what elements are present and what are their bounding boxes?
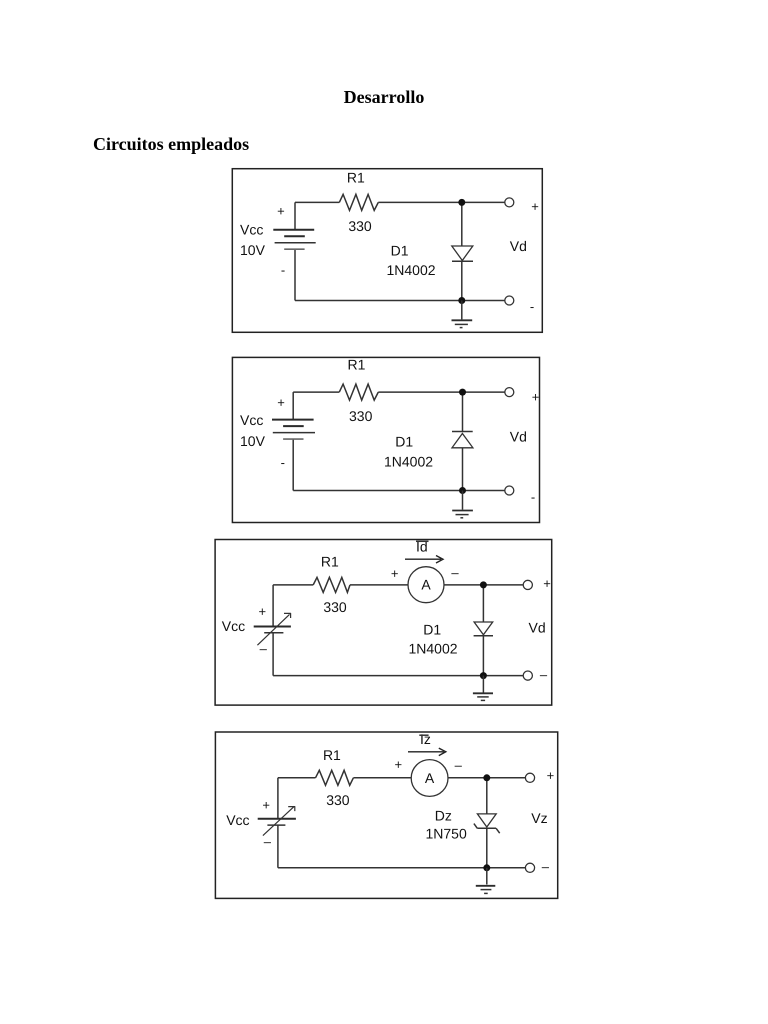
node junction bottom C3 <box>480 672 487 679</box>
svg-text:+: + <box>262 797 270 812</box>
wire bottom C2 <box>293 490 504 492</box>
title Desarrollo <box>0 88 768 106</box>
svg-text:+: + <box>277 203 285 218</box>
wire top C4 <box>278 777 526 779</box>
resistor R1 (circuit 4) <box>316 770 354 785</box>
svg-text:Vcc: Vcc <box>240 221 263 237</box>
ammeter U1 (circuit 4) <box>411 760 448 797</box>
ammeter U1 (circuit 3) <box>408 567 444 603</box>
svg-text:-: - <box>281 263 285 278</box>
svg-text:–: – <box>451 565 459 580</box>
current arrow C3 <box>405 556 443 564</box>
svg-text:R1: R1 <box>321 553 339 569</box>
resistor R1 (circuit 2) <box>339 384 378 400</box>
circuit 1 frame <box>232 169 542 333</box>
svg-text:+: + <box>532 390 540 405</box>
svg-text:+: + <box>531 199 539 214</box>
svg-text:+: + <box>543 576 551 591</box>
svg-text:-: - <box>281 455 285 470</box>
svg-text:Vd: Vd <box>529 619 546 635</box>
terminal + C3 <box>523 580 532 589</box>
battery Vcc 10V (circuit 1) <box>273 202 315 300</box>
svg-text:A: A <box>425 770 435 786</box>
svg-text:Iz: Iz <box>420 731 431 747</box>
svg-text:–: – <box>260 641 268 656</box>
node junction top C1 <box>458 199 465 206</box>
svg-text:-: - <box>531 489 535 504</box>
terminal - C2 <box>505 486 514 495</box>
svg-text:R1: R1 <box>347 169 365 185</box>
wire diode branch C3 <box>482 585 484 676</box>
node junction top C2 <box>459 389 466 396</box>
diode D1 (circuit 1) <box>452 246 473 261</box>
svg-text:-: - <box>530 299 534 314</box>
wire top C2 <box>293 391 504 393</box>
terminal - C4 <box>525 863 534 872</box>
svg-text:D1: D1 <box>423 621 441 637</box>
current label Iz with overline (circuit 4) <box>419 731 431 747</box>
diode D1 reversed (circuit 2) <box>452 432 473 448</box>
terminal - C1 <box>505 296 514 305</box>
terminal + C4 <box>525 773 534 782</box>
svg-text:1N750: 1N750 <box>426 826 467 842</box>
wire top C3 <box>273 584 523 586</box>
svg-text:R1: R1 <box>348 357 366 373</box>
svg-text:330: 330 <box>323 599 347 615</box>
resistor R1 (circuit 3) <box>313 577 350 592</box>
svg-text:Vd: Vd <box>510 429 527 445</box>
diode D1 (circuit 3) <box>474 622 493 636</box>
terminal + C2 <box>505 388 514 397</box>
svg-text:–: – <box>264 834 272 849</box>
circuit 3 frame <box>215 540 552 706</box>
terminal - C3 <box>523 671 532 680</box>
svg-text:–: – <box>540 667 548 682</box>
node junction top C4 <box>483 774 490 781</box>
svg-text:10V: 10V <box>240 242 266 258</box>
node junction bottom C1 <box>458 297 465 304</box>
wire bottom C1 <box>295 300 505 302</box>
zener diode Dz (circuit 4) <box>474 814 500 833</box>
svg-text:Vd: Vd <box>510 238 527 254</box>
svg-text:+: + <box>395 757 403 772</box>
svg-text:+: + <box>259 604 267 619</box>
circuit 2 frame <box>232 357 539 522</box>
node junction bottom C4 <box>483 864 490 871</box>
variable source Vcc (circuit 4) <box>258 778 296 868</box>
ground (circuit 4) <box>476 868 496 894</box>
terminal + C1 <box>505 198 514 207</box>
svg-text:+: + <box>277 395 285 410</box>
svg-text:–: – <box>542 859 550 874</box>
svg-text:Vcc: Vcc <box>240 412 263 428</box>
svg-text:A: A <box>421 577 431 593</box>
svg-text:D1: D1 <box>391 242 409 258</box>
ground (circuit 2) <box>452 491 473 518</box>
resistor R1 (circuit 1) <box>339 194 378 210</box>
wire zener branch C4 <box>486 778 488 868</box>
svg-text:1N4002: 1N4002 <box>384 453 433 469</box>
svg-text:Vz: Vz <box>531 810 547 826</box>
svg-text:+: + <box>547 768 555 783</box>
svg-text:330: 330 <box>348 218 372 234</box>
svg-text:1N4002: 1N4002 <box>409 640 458 656</box>
svg-text:Vcc: Vcc <box>222 618 245 634</box>
variable source Vcc (circuit 3) <box>254 585 291 676</box>
heading Circuitos empleados <box>93 135 249 153</box>
svg-text:1N4002: 1N4002 <box>387 262 436 278</box>
svg-text:Dz: Dz <box>435 807 452 823</box>
wire diode branch C2 <box>462 392 464 490</box>
svg-text:D1: D1 <box>395 434 413 450</box>
wire top C1 <box>295 201 505 203</box>
wire diode branch C1 <box>461 202 463 300</box>
svg-text:R1: R1 <box>323 747 341 763</box>
svg-text:10V: 10V <box>240 433 266 449</box>
ground (circuit 3) <box>473 676 493 701</box>
svg-text:Vcc: Vcc <box>226 812 249 828</box>
current label Id with overline (circuit 3) <box>416 539 429 555</box>
svg-text:330: 330 <box>349 408 373 424</box>
current arrow C4 <box>408 748 446 756</box>
ground (circuit 1) <box>452 301 473 328</box>
battery Vcc 10V (circuit 2) <box>272 392 315 490</box>
svg-text:+: + <box>391 566 399 581</box>
wire bottom C4 <box>278 867 526 869</box>
wire bottom C3 <box>273 675 523 677</box>
svg-text:330: 330 <box>326 792 350 808</box>
node junction top C3 <box>480 581 487 588</box>
node junction bottom C2 <box>459 487 466 494</box>
circuit 4 frame <box>215 732 557 898</box>
svg-text:–: – <box>455 758 463 773</box>
